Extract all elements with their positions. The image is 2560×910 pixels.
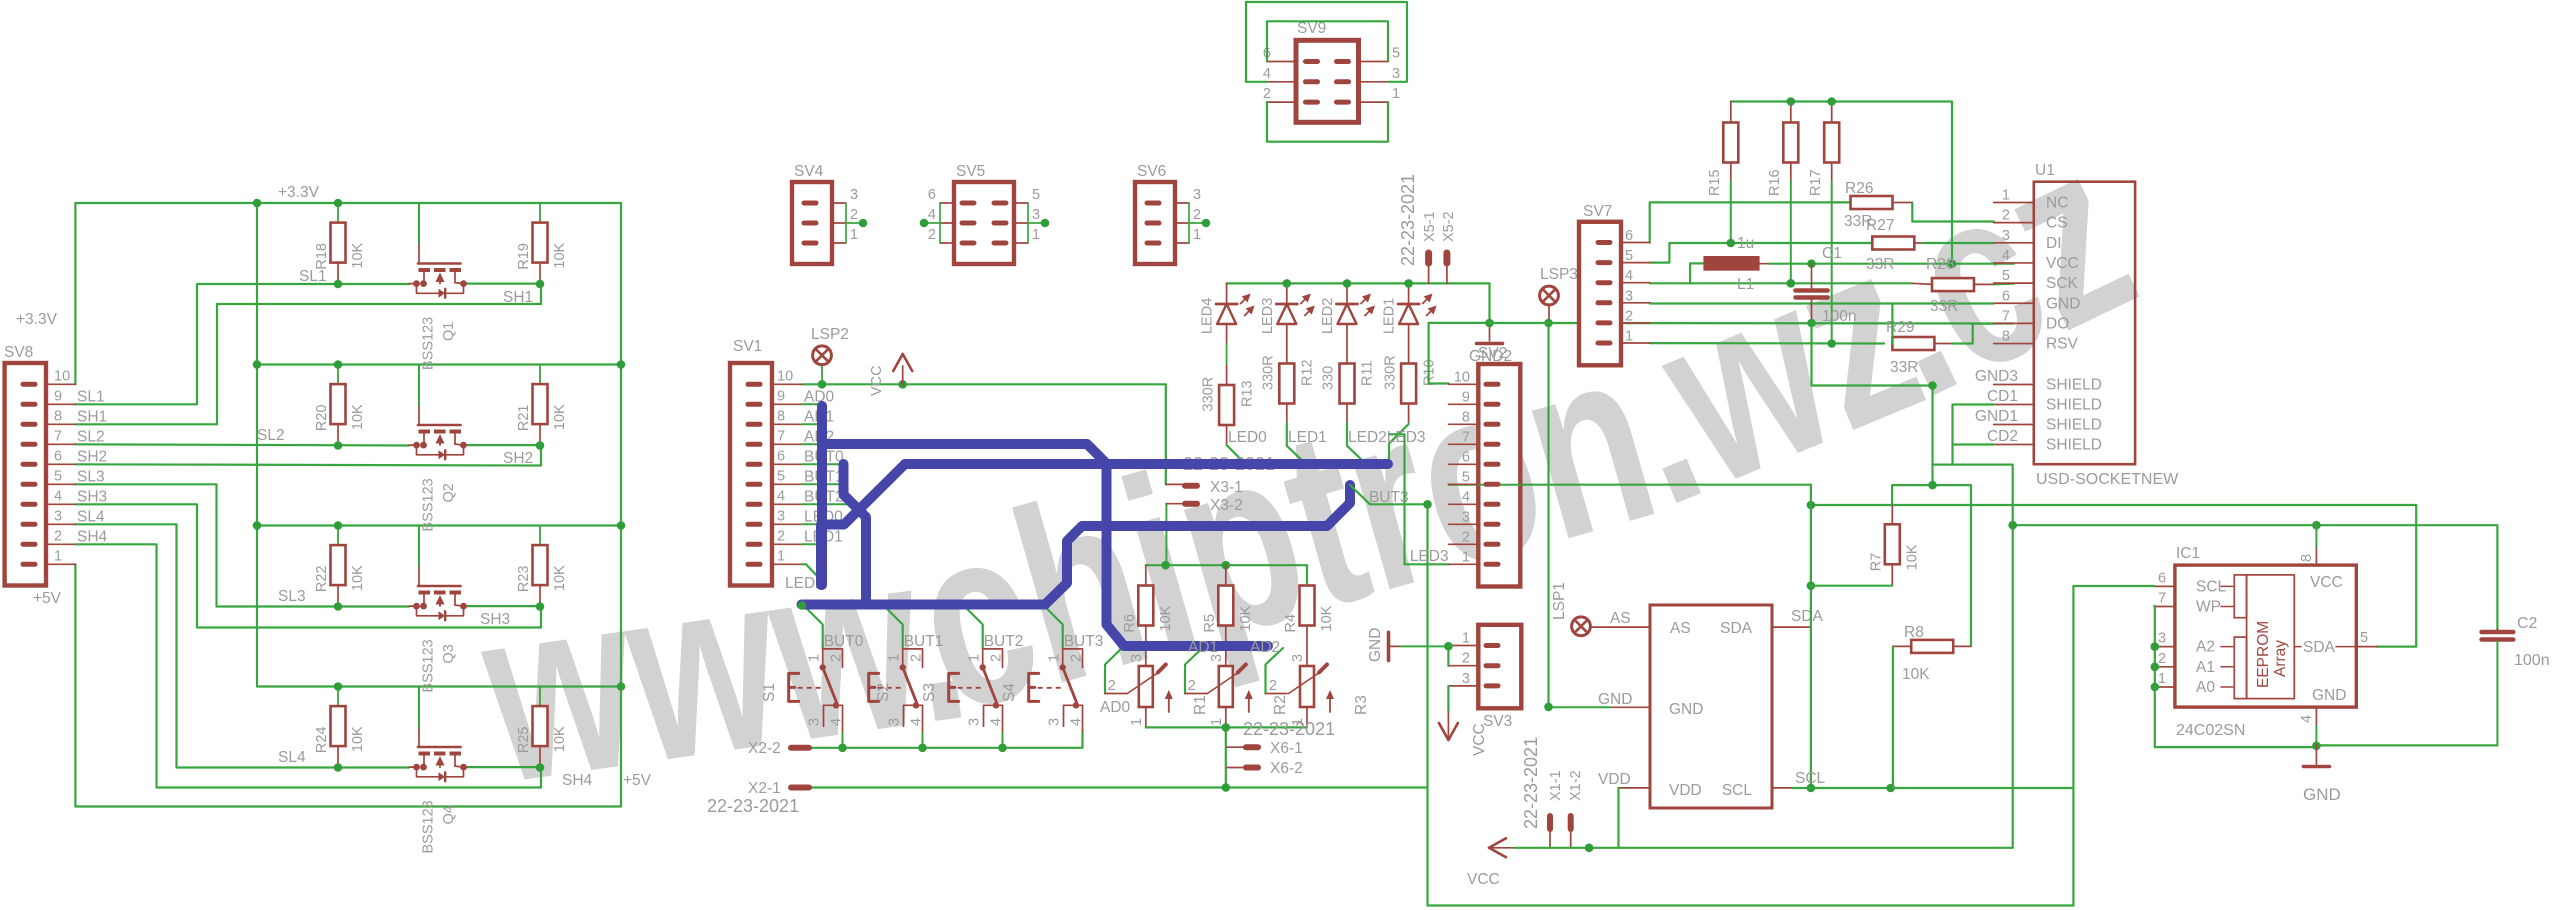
svg-text:330R: 330R bbox=[1261, 355, 1277, 390]
svg-text:X2-1: X2-1 bbox=[748, 780, 781, 797]
watermark bbox=[467, 89, 2169, 836]
bus diag to LED2 leg bbox=[821, 464, 905, 585]
wire BUT1 stub bbox=[802, 483, 844, 485]
pad X3-1 bbox=[1166, 483, 1182, 485]
wire SV7 pin2 / C1 bottom line bbox=[1490, 322, 2014, 325]
IC IC1 24C02SN bbox=[2175, 565, 2356, 707]
connector SV9 bbox=[1296, 40, 1359, 122]
svg-text:GND1: GND1 bbox=[1975, 408, 2018, 425]
wire LED anode rail bbox=[1227, 283, 1490, 323]
resistor R20 10K bbox=[337, 365, 339, 385]
resistor R28 33R bbox=[1912, 283, 1932, 284]
svg-text:Q3: Q3 bbox=[441, 644, 457, 663]
svg-text:5: 5 bbox=[1392, 46, 1400, 62]
EEPROM inner symbol bbox=[2234, 575, 2246, 618]
svg-text:7: 7 bbox=[777, 428, 785, 444]
svg-text:22-23-2021: 22-23-2021 bbox=[1243, 719, 1335, 739]
resistor R24 10K bbox=[337, 687, 339, 707]
wire GND3-GND1 vertical bbox=[1931, 386, 1933, 486]
wire right riser x=621 bbox=[620, 203, 622, 807]
wire R29 left up to pin3 GND line bbox=[1891, 304, 1893, 344]
wire top R rail bbox=[1731, 102, 1952, 264]
resistor R11 330 bbox=[1346, 324, 1348, 364]
svg-text:3: 3 bbox=[850, 187, 858, 203]
svg-text:330R: 330R bbox=[1383, 355, 1399, 390]
junction dots X2-2 bbox=[838, 744, 847, 753]
svg-text:2: 2 bbox=[1269, 678, 1277, 694]
svg-text:R24: R24 bbox=[314, 726, 330, 753]
inductor L1 1u bbox=[1703, 256, 1759, 271]
svg-text:3: 3 bbox=[54, 508, 62, 524]
svg-text:SH4: SH4 bbox=[562, 772, 593, 789]
svg-text:R5: R5 bbox=[1202, 614, 1218, 633]
svg-text:3: 3 bbox=[777, 508, 785, 524]
svg-text:SL1: SL1 bbox=[77, 388, 105, 405]
svg-text:4: 4 bbox=[909, 718, 925, 726]
svg-text:A0: A0 bbox=[2196, 679, 2215, 696]
trimmer R1 bbox=[1139, 666, 1153, 707]
IC U1 USD-SOCKETNEW bbox=[2034, 182, 2135, 465]
svg-text:SHIELD: SHIELD bbox=[2046, 437, 2102, 454]
svg-text:R8: R8 bbox=[1904, 624, 1924, 641]
resistor R21 10K bbox=[539, 365, 541, 385]
solder pad LSP2 bbox=[813, 346, 832, 365]
wire SH3 bbox=[464, 605, 540, 607]
bus horizontal H1 bbox=[905, 459, 1388, 469]
svg-text:4: 4 bbox=[829, 718, 845, 726]
resistor R17 bbox=[1831, 102, 1833, 123]
svg-text:R12: R12 bbox=[1300, 359, 1316, 386]
wire trimmer pin1 rail bbox=[1146, 726, 1307, 728]
wire trimmer R3 wiper bbox=[1266, 648, 1284, 694]
svg-text:S1: S1 bbox=[761, 683, 778, 702]
svg-text:10K: 10K bbox=[350, 242, 366, 268]
wire SDA long from SV2 pin5 bbox=[1449, 484, 1811, 486]
svg-text:GND: GND bbox=[2303, 785, 2341, 804]
svg-text:4: 4 bbox=[928, 207, 936, 223]
wire LED3 loop bbox=[1390, 434, 1449, 564]
junction dot bus end bbox=[798, 601, 807, 610]
svg-text:X5-1: X5-1 bbox=[1422, 211, 1438, 242]
pad X2-1 bbox=[791, 785, 809, 791]
svg-text:C1: C1 bbox=[1822, 245, 1842, 262]
pad X2-2 bbox=[791, 745, 809, 751]
svg-text:S3: S3 bbox=[921, 683, 938, 702]
wire BUT3 vertical bbox=[1428, 504, 2074, 905]
wire SV7 pin4 / R16 line bbox=[1650, 282, 1912, 284]
wire L1 left riser bbox=[1690, 263, 1703, 283]
resistor R8 10K bbox=[1911, 640, 1953, 653]
svg-text:6: 6 bbox=[1462, 449, 1470, 465]
svg-text:1: 1 bbox=[1462, 631, 1470, 647]
LED LED3 bbox=[1286, 283, 1288, 304]
svg-text:VCC: VCC bbox=[1467, 871, 1500, 888]
bus BUT0 leg bbox=[844, 464, 867, 605]
wire SV9 pins 4-3 loop bbox=[1246, 2, 1407, 82]
svg-text:10K: 10K bbox=[1319, 605, 1335, 631]
svg-text:2: 2 bbox=[1108, 678, 1116, 694]
svg-text:3: 3 bbox=[1047, 718, 1063, 726]
svg-text:10K: 10K bbox=[1904, 544, 1920, 570]
svg-text:R4: R4 bbox=[1283, 614, 1299, 633]
svg-text:R23: R23 bbox=[516, 565, 532, 592]
wire LED0 diag to bus bbox=[1227, 445, 1246, 465]
pad X6-2 bbox=[1227, 767, 1243, 769]
svg-text:1: 1 bbox=[1032, 227, 1040, 243]
svg-text:3: 3 bbox=[1129, 654, 1145, 662]
svg-text:VDD: VDD bbox=[1669, 782, 1702, 799]
svg-text:AD1: AD1 bbox=[1188, 639, 1218, 656]
capacitor C1 100n bbox=[1811, 264, 1813, 289]
wire SL2 bbox=[75, 444, 409, 445]
connector SV8 bbox=[5, 363, 46, 586]
svg-text:BSS123: BSS123 bbox=[421, 317, 437, 370]
wire SV8 pin1 to +5V rail bbox=[74, 564, 76, 806]
connector SV4 bbox=[792, 182, 832, 264]
resistor R29 33R bbox=[1892, 337, 1934, 350]
svg-text:2: 2 bbox=[1625, 308, 1633, 324]
svg-text:5: 5 bbox=[777, 468, 785, 484]
junction dot LSP2 bbox=[818, 380, 827, 389]
svg-text:3: 3 bbox=[1625, 288, 1633, 304]
svg-text:SH2: SH2 bbox=[77, 448, 107, 465]
svg-text:R7: R7 bbox=[1868, 553, 1884, 572]
svg-text:X3-1: X3-1 bbox=[1210, 479, 1243, 496]
wire SDA crossing SV2 bbox=[1478, 484, 1520, 486]
svg-text:4: 4 bbox=[2002, 248, 2010, 264]
svg-text:Q2: Q2 bbox=[441, 483, 457, 502]
svg-text:4: 4 bbox=[1625, 268, 1633, 284]
svg-text:4: 4 bbox=[1263, 66, 1271, 82]
svg-text:LED2: LED2 bbox=[1320, 298, 1336, 334]
wire LSP2 stub bbox=[821, 364, 823, 384]
svg-text:SH2: SH2 bbox=[503, 450, 533, 467]
pad X5-1 bbox=[1425, 253, 1432, 263]
wire GND2 loop from SV2 pin10 bbox=[1429, 323, 1490, 384]
solder pad LSP3 bbox=[1540, 286, 1559, 305]
resistor R19 10K bbox=[539, 203, 541, 223]
svg-text:4: 4 bbox=[2299, 715, 2315, 723]
wire rail row3 bbox=[257, 524, 621, 526]
svg-text:6: 6 bbox=[2002, 288, 2010, 304]
wire SL1 bbox=[75, 284, 409, 404]
wire VCC trunk to C2 bbox=[2013, 525, 2498, 629]
wire switch S3 pin4 to X2-2 bbox=[1002, 731, 1004, 748]
svg-text:X2-2: X2-2 bbox=[748, 740, 781, 757]
svg-text:10K: 10K bbox=[1158, 605, 1174, 631]
svg-text:10: 10 bbox=[1454, 369, 1470, 385]
wire IC GND pin bbox=[1611, 706, 1651, 708]
svg-text:R28: R28 bbox=[1926, 256, 1954, 273]
wire R28 to U1 SCK bbox=[1974, 283, 1994, 285]
svg-text:10K: 10K bbox=[552, 726, 568, 752]
svg-text:GND3: GND3 bbox=[1975, 368, 2018, 385]
svg-text:100n: 100n bbox=[2514, 652, 2550, 669]
wire IC1 WP-A0 chain bbox=[2153, 606, 2156, 687]
svg-text:2: 2 bbox=[909, 654, 925, 662]
pad X1-1 bbox=[1547, 816, 1553, 829]
svg-text:5: 5 bbox=[2360, 630, 2368, 646]
svg-text:3: 3 bbox=[2158, 631, 2166, 647]
svg-text:GND: GND bbox=[1598, 691, 1632, 708]
svg-text:SCK: SCK bbox=[2046, 275, 2079, 292]
wire SV7 pin3 to U1 GND bbox=[1650, 302, 1994, 304]
svg-text:NC: NC bbox=[2046, 195, 2068, 212]
LED LED4 bbox=[1226, 283, 1228, 304]
wire SV9 pins 2-1 loop bbox=[1267, 102, 1388, 142]
switch S2 bbox=[869, 673, 879, 701]
svg-text:10K: 10K bbox=[552, 242, 568, 268]
svg-text:L1: L1 bbox=[1737, 276, 1754, 293]
svg-text:R19: R19 bbox=[516, 243, 532, 270]
svg-text:330R: 330R bbox=[1201, 377, 1217, 412]
svg-text:Array: Array bbox=[2272, 640, 2289, 677]
wire SV3 pin3 to VCC arrow bbox=[1447, 686, 1449, 712]
svg-text:7: 7 bbox=[2158, 591, 2166, 607]
svg-text:4: 4 bbox=[1069, 718, 1085, 726]
svg-text:SH1: SH1 bbox=[77, 408, 107, 425]
wire SV7 pin5 to R27 line bbox=[1650, 243, 1872, 263]
svg-text:X6-2: X6-2 bbox=[1270, 760, 1303, 777]
transistor Q3 BSS123 bbox=[418, 526, 420, 568]
svg-text:SHIELD: SHIELD bbox=[2046, 377, 2102, 394]
svg-text:Q1: Q1 bbox=[441, 322, 457, 341]
svg-text:2: 2 bbox=[2158, 651, 2166, 667]
wire SL4 bbox=[75, 524, 409, 767]
junction dots LED rail bbox=[1283, 279, 1292, 288]
svg-text:1: 1 bbox=[1625, 329, 1633, 345]
svg-text:2: 2 bbox=[1462, 529, 1470, 545]
svg-text:6: 6 bbox=[54, 448, 62, 464]
bus bottom H2 bbox=[802, 600, 1046, 610]
svg-text:LED3: LED3 bbox=[1410, 548, 1449, 565]
wire SDA trunk bbox=[1811, 505, 2416, 647]
resistor R15 bbox=[1730, 102, 1732, 123]
wire SV3 pin2 gnd bbox=[1447, 646, 1449, 666]
svg-text:5: 5 bbox=[1032, 187, 1040, 203]
svg-text:3: 3 bbox=[2002, 228, 2010, 244]
resistor R12 330R bbox=[1286, 324, 1288, 364]
wire AD0 stub bbox=[802, 403, 822, 405]
svg-text:2: 2 bbox=[928, 227, 936, 243]
wire R7 bottom to SDA bbox=[1811, 585, 1892, 587]
svg-text:BUT0: BUT0 bbox=[824, 633, 864, 650]
svg-text:AD2: AD2 bbox=[1250, 639, 1280, 656]
svg-text:4: 4 bbox=[989, 718, 1005, 726]
svg-text:22-23-2021: 22-23-2021 bbox=[707, 796, 799, 816]
svg-text:1: 1 bbox=[807, 654, 823, 662]
svg-text:SV4: SV4 bbox=[794, 163, 824, 180]
svg-text:2: 2 bbox=[54, 528, 62, 544]
svg-text:R29: R29 bbox=[1886, 319, 1914, 336]
connector SV6 bbox=[1135, 182, 1175, 264]
wire IC1 pin4 GND bbox=[2315, 707, 2317, 726]
svg-text:8: 8 bbox=[2002, 329, 2010, 345]
svg-text:5: 5 bbox=[54, 468, 62, 484]
power arrow VCC near SV1 bbox=[893, 354, 903, 371]
wire IC SCL pin bbox=[1772, 787, 1792, 789]
wire LED3 path to bus end bbox=[1389, 424, 1409, 465]
svg-text:SV1: SV1 bbox=[733, 338, 762, 355]
svg-text:GND: GND bbox=[2046, 295, 2080, 312]
wire BUT0 from bus to switch bbox=[804, 606, 823, 649]
svg-text:+3.3V: +3.3V bbox=[16, 311, 58, 328]
svg-text:1: 1 bbox=[850, 227, 858, 243]
resistor R7 10K bbox=[1885, 524, 1900, 564]
svg-text:+3.3V: +3.3V bbox=[278, 184, 320, 201]
wire left riser x=257 bbox=[256, 203, 258, 687]
svg-text:7: 7 bbox=[1462, 429, 1470, 445]
wire R27 to U1 DI bbox=[1914, 242, 1923, 244]
svg-text:GND: GND bbox=[2312, 687, 2346, 704]
resistor R6 10K bbox=[1145, 565, 1147, 585]
wire SV9 pins 6-5 loop bbox=[1267, 21, 1388, 61]
connector SV7 bbox=[1579, 222, 1621, 365]
junction dot R16 bottom bbox=[1787, 279, 1796, 288]
wire switch S1 pin4 to X2-2 bbox=[842, 731, 844, 748]
wire SH2 bbox=[464, 444, 540, 446]
svg-text:33R: 33R bbox=[1930, 298, 1958, 315]
svg-text:X6-1: X6-1 bbox=[1270, 740, 1303, 757]
wire X2-1 net bbox=[810, 786, 1427, 788]
svg-text:4: 4 bbox=[54, 488, 62, 504]
svg-text:SH1: SH1 bbox=[503, 289, 533, 306]
resistor R18 10K bbox=[337, 203, 339, 223]
svg-text:X3-2: X3-2 bbox=[1210, 497, 1243, 514]
svg-text:10K: 10K bbox=[1902, 666, 1930, 683]
svg-text:R27: R27 bbox=[1866, 217, 1894, 234]
wire SL3 bbox=[75, 484, 409, 606]
svg-text:8: 8 bbox=[54, 408, 62, 424]
svg-text:LED2LED3: LED2LED3 bbox=[1348, 429, 1426, 446]
wire vcc stub to R8 right bbox=[1932, 485, 1971, 645]
svg-text:R17: R17 bbox=[1808, 169, 1824, 196]
svg-text:R16: R16 bbox=[1767, 169, 1783, 196]
connector SV3 bbox=[1478, 625, 1521, 709]
svg-text:X1-1: X1-1 bbox=[1548, 770, 1564, 801]
svg-text:LED1: LED1 bbox=[1382, 298, 1398, 334]
svg-text:R1: R1 bbox=[1192, 695, 1209, 715]
svg-text:2: 2 bbox=[1193, 207, 1201, 223]
wire VCC X1 line bbox=[1515, 847, 2013, 849]
svg-text:SL4: SL4 bbox=[278, 749, 306, 766]
svg-text:WP: WP bbox=[2196, 599, 2221, 616]
svg-text:IC1: IC1 bbox=[2176, 545, 2200, 562]
connector SV5 bbox=[954, 182, 1014, 264]
wire BUT2 from bus to switch bbox=[964, 606, 983, 649]
svg-text:CD2: CD2 bbox=[1987, 428, 2018, 445]
svg-text:8: 8 bbox=[777, 408, 785, 424]
svg-text:SL3: SL3 bbox=[278, 588, 306, 605]
svg-text:4: 4 bbox=[1462, 489, 1470, 505]
svg-text:8: 8 bbox=[2299, 554, 2315, 562]
svg-text:22-23-2021: 22-23-2021 bbox=[1521, 737, 1541, 829]
wire R8 left down to SCL bbox=[1892, 646, 1894, 788]
svg-text:SCL: SCL bbox=[1722, 782, 1753, 799]
svg-text:33R: 33R bbox=[1866, 256, 1894, 273]
svg-text:10K: 10K bbox=[350, 404, 366, 430]
wire rail row2 bbox=[257, 363, 621, 365]
wire SCL riser to IC1 pin6 bbox=[2073, 586, 2154, 906]
transistor Q2 BSS123 bbox=[418, 365, 420, 407]
wire SDA vertical bbox=[1810, 485, 1812, 788]
pad X1-2 bbox=[1568, 816, 1574, 829]
svg-text:1: 1 bbox=[2158, 671, 2166, 687]
svg-text:VCC: VCC bbox=[2046, 255, 2079, 272]
svg-text:3: 3 bbox=[1032, 207, 1040, 223]
wire IC1 pin8 VCC bbox=[2315, 547, 2317, 565]
connector SV1 bbox=[730, 363, 772, 586]
junction dot VCC arrow bbox=[898, 380, 907, 389]
svg-text:6: 6 bbox=[2158, 570, 2166, 586]
svg-text:5: 5 bbox=[1462, 469, 1470, 485]
svg-text:SV8: SV8 bbox=[4, 344, 33, 361]
svg-text:X5-2: X5-2 bbox=[1441, 211, 1457, 242]
svg-text:330: 330 bbox=[1321, 366, 1337, 390]
svg-text:R13: R13 bbox=[1240, 380, 1256, 407]
svg-text:DO: DO bbox=[2046, 315, 2069, 332]
svg-text:SV7: SV7 bbox=[1583, 203, 1612, 220]
svg-text:LSP1: LSP1 bbox=[1551, 582, 1568, 620]
svg-text:5: 5 bbox=[2002, 268, 2010, 284]
svg-text:R26: R26 bbox=[1845, 180, 1873, 197]
svg-text:DI: DI bbox=[2046, 235, 2062, 252]
wire R26 to U1 CS bbox=[1892, 202, 1912, 204]
ground GND under IC1 bbox=[2315, 745, 2317, 764]
svg-text:8: 8 bbox=[1462, 409, 1470, 425]
svg-text:1: 1 bbox=[887, 654, 903, 662]
svg-text:1: 1 bbox=[1047, 654, 1063, 662]
wire LED1 stub bbox=[802, 543, 821, 545]
wire IC VDD pin bbox=[1619, 787, 1651, 789]
svg-text:3: 3 bbox=[967, 718, 983, 726]
wire vcc jog right block bbox=[1932, 465, 2012, 848]
svg-text:R6: R6 bbox=[1122, 614, 1138, 633]
svg-text:SDA: SDA bbox=[1720, 620, 1753, 637]
svg-text:6: 6 bbox=[1625, 228, 1633, 244]
svg-text:1u: 1u bbox=[1737, 235, 1754, 252]
svg-text:CS: CS bbox=[2046, 215, 2068, 232]
wire SV8 pin10 riser bbox=[74, 203, 76, 384]
svg-text:10K: 10K bbox=[350, 726, 366, 752]
resistor R13 330R bbox=[1226, 324, 1228, 344]
wire AD1 stub bbox=[802, 423, 822, 425]
svg-text:5: 5 bbox=[1625, 248, 1633, 264]
svg-text:LED4: LED4 bbox=[1200, 298, 1216, 334]
svg-text:SL4: SL4 bbox=[77, 508, 105, 525]
svg-text:SH3: SH3 bbox=[77, 488, 107, 505]
capacitor C2 100n bbox=[2496, 629, 2498, 630]
svg-text:S2: S2 bbox=[875, 683, 892, 702]
wire SV7 pin6 to top rail bbox=[1650, 202, 1851, 242]
svg-text:1: 1 bbox=[777, 548, 785, 564]
wire BUT3 net bbox=[1350, 485, 1428, 504]
svg-text:10: 10 bbox=[54, 368, 70, 384]
svg-text:EEPROM: EEPROM bbox=[2255, 621, 2272, 688]
transistor Q4 BSS123 bbox=[418, 687, 420, 729]
svg-text:10K: 10K bbox=[552, 565, 568, 591]
junction dots left block bbox=[253, 199, 262, 208]
bus right riser to BUT3 bbox=[1045, 485, 1350, 605]
resistor R27 33R bbox=[1872, 237, 1914, 250]
svg-text:3: 3 bbox=[887, 718, 903, 726]
svg-text:R25: R25 bbox=[516, 726, 532, 753]
junction dots top rail bbox=[1787, 97, 1796, 106]
wire R29 right jog to U1 DO bbox=[1934, 343, 1952, 345]
wire LED2 path to bus bbox=[1347, 423, 1367, 465]
svg-text:3: 3 bbox=[1290, 654, 1306, 662]
svg-text:AS: AS bbox=[1670, 620, 1691, 637]
